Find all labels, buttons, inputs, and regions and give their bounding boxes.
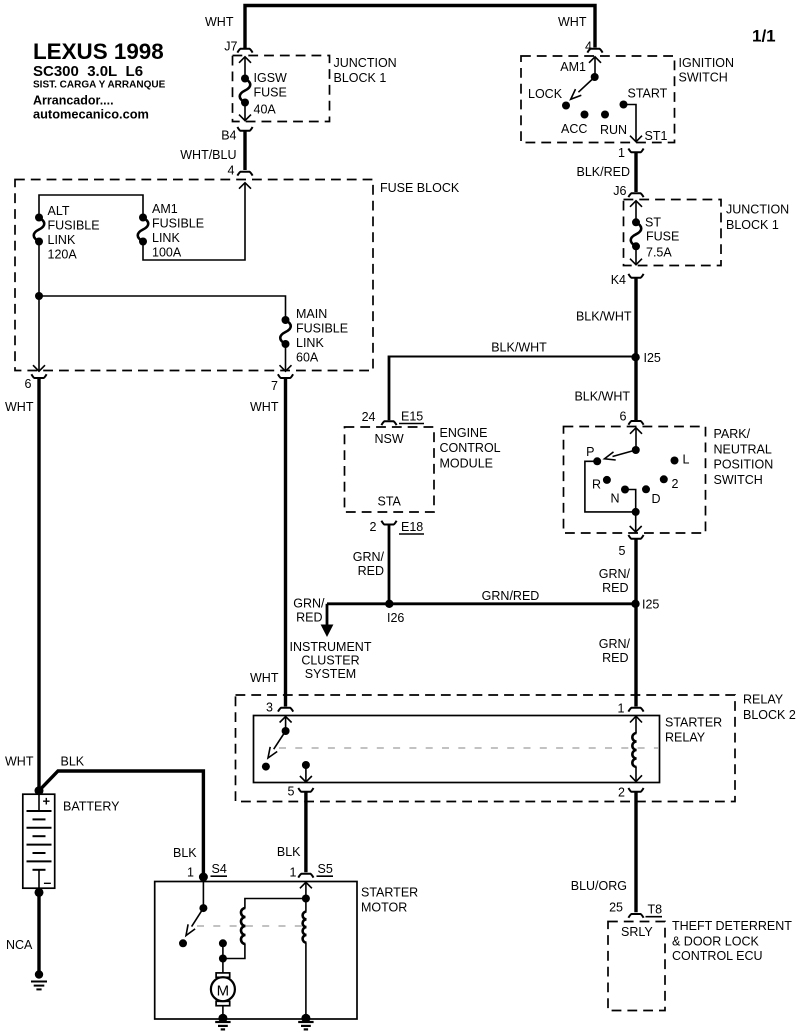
wire ALT link down to junction	[38, 242, 40, 297]
svg-text:I25: I25	[644, 351, 661, 365]
contact D	[642, 485, 650, 493]
mechanical link (grey dashed)	[197, 925, 306, 927]
switch arm AM1 to LOCK	[578, 77, 594, 92]
svg-text:FUSE: FUSE	[254, 86, 287, 100]
wire GRN/RED (PNP 5 to I25)	[634, 539, 637, 604]
svg-text:2: 2	[370, 520, 377, 534]
svg-text:ST1: ST1	[645, 129, 668, 143]
svg-text:5: 5	[619, 544, 626, 558]
svg-text:FUSIBLE: FUSIBLE	[48, 219, 100, 233]
svg-text:JUNCTION: JUNCTION	[726, 203, 789, 217]
relay switch	[262, 717, 292, 771]
wire NCA (battery to ground)	[37, 892, 40, 973]
wire BLK/WHT (K4 to I25)	[634, 278, 637, 357]
svg-text:Arrancador....: Arrancador....	[33, 94, 114, 108]
svg-text:AM1: AM1	[152, 202, 178, 216]
hold-in coil	[305, 899, 307, 912]
svg-text:BLOCK 1: BLOCK 1	[726, 218, 779, 232]
ground (battery)	[31, 970, 47, 989]
S5 lead with arrow	[300, 882, 312, 888]
svg-text:RELAY: RELAY	[743, 693, 784, 707]
wire P to output junction	[585, 461, 636, 512]
svg-text:WHT: WHT	[5, 755, 34, 769]
svg-text:FUSE: FUSE	[646, 230, 679, 244]
pull-in coil	[245, 899, 306, 909]
svg-text:& DOOR LOCK: & DOOR LOCK	[672, 935, 759, 949]
wire WHT top bus (J7 to ignition switch pin 4)	[245, 6, 595, 49]
svg-text:SC300 3.0L L6: SC300 3.0L L6	[33, 63, 143, 80]
svg-text:POSITION: POSITION	[714, 458, 774, 472]
svg-text:ALT: ALT	[48, 204, 70, 218]
contact ACC	[581, 111, 589, 119]
svg-text:6: 6	[620, 410, 627, 424]
svg-text:SYSTEM: SYSTEM	[305, 667, 356, 681]
contact P	[593, 457, 601, 465]
mechanical link (grey dashed)	[279, 747, 658, 749]
svg-text:2: 2	[618, 786, 625, 800]
svg-text:RED: RED	[602, 581, 628, 595]
svg-text:RELAY: RELAY	[665, 731, 706, 745]
wire junction to MAIN link	[39, 296, 286, 320]
node I25 (upper)	[631, 353, 639, 361]
wire GRN/RED horizontal (I26 to I25)	[327, 602, 636, 605]
relay block 2 box	[236, 695, 736, 802]
svg-text:LOCK: LOCK	[528, 87, 563, 101]
svg-text:J7: J7	[224, 40, 237, 54]
svg-text:BLK/RED: BLK/RED	[577, 165, 631, 179]
ground (solenoid)	[298, 1022, 313, 1029]
svg-text:BLK: BLK	[173, 846, 197, 860]
wire BLK/WHT (I25 to PNP pin 6)	[634, 357, 637, 420]
wire BLK/RED (ST1 to J6)	[634, 153, 637, 193]
wire junction down to pin 6	[38, 296, 40, 371]
svg-text:100A: 100A	[152, 246, 182, 260]
svg-text:1: 1	[618, 146, 625, 160]
solenoid switch	[202, 877, 204, 908]
ignition switch box	[521, 56, 675, 143]
svg-text:GRN/RED: GRN/RED	[482, 589, 540, 603]
svg-text:60A: 60A	[296, 351, 319, 365]
svg-text:25: 25	[609, 901, 623, 915]
svg-text:6: 6	[25, 377, 32, 391]
svg-text:N: N	[611, 492, 620, 506]
svg-text:5: 5	[288, 785, 295, 799]
fuse block box	[15, 180, 373, 371]
svg-text:MOTOR: MOTOR	[361, 901, 407, 915]
svg-text:MAIN: MAIN	[296, 307, 327, 321]
svg-text:+: +	[43, 794, 51, 809]
svg-text:M: M	[217, 983, 230, 1000]
svg-text:START: START	[628, 87, 668, 101]
svg-text:WHT: WHT	[5, 400, 34, 414]
contact N	[621, 486, 629, 494]
svg-text:IGNITION: IGNITION	[679, 56, 735, 70]
svg-text:WHT: WHT	[250, 671, 279, 685]
svg-text:RUN: RUN	[600, 123, 627, 137]
svg-text:automecanico.com: automecanico.com	[33, 107, 149, 122]
svg-text:WHT: WHT	[250, 400, 279, 414]
svg-text:LINK: LINK	[152, 231, 180, 245]
svg-text:K4: K4	[611, 273, 626, 287]
svg-text:S5: S5	[318, 862, 333, 876]
contact R	[603, 476, 611, 484]
svg-text:BLOCK 1: BLOCK 1	[334, 71, 387, 85]
starter motor box	[155, 882, 357, 1020]
svg-text:J6: J6	[613, 184, 626, 198]
svg-text:BATTERY: BATTERY	[63, 800, 120, 814]
svg-text:SIST. CARGA Y ARRANQUE: SIST. CARGA Y ARRANQUE	[33, 80, 166, 91]
svg-text:LINK: LINK	[48, 233, 76, 247]
svg-text:4: 4	[228, 164, 235, 178]
fusible link ALT 120A	[34, 204, 100, 262]
svg-text:NEUTRAL: NEUTRAL	[714, 443, 772, 457]
svg-text:SWITCH: SWITCH	[679, 71, 728, 85]
wire WHT/BLU (B4 to fuse block pin 4)	[243, 131, 246, 170]
svg-text:ENGINE: ENGINE	[440, 426, 488, 440]
svg-text:FUSIBLE: FUSIBLE	[296, 322, 348, 336]
svg-text:–: –	[44, 874, 52, 890]
wire GRN/RED (I25 to relay pin 1)	[634, 604, 637, 707]
fusible link AM1 100A	[138, 202, 204, 260]
fuse ST 7.5A	[630, 201, 679, 265]
PNP internals	[585, 428, 690, 532]
svg-text:JUNCTION: JUNCTION	[334, 56, 397, 70]
svg-text:E15: E15	[401, 410, 423, 424]
svg-text:CONTROL: CONTROL	[440, 441, 501, 455]
svg-text:IGSW: IGSW	[254, 71, 288, 85]
svg-text:BLK/WHT: BLK/WHT	[574, 390, 630, 404]
svg-text:2: 2	[672, 477, 679, 491]
contact RUN	[601, 111, 609, 119]
svg-text:1: 1	[187, 866, 194, 880]
svg-text:ACC: ACC	[561, 122, 587, 136]
svg-text:MODULE: MODULE	[440, 457, 493, 471]
svg-text:7: 7	[271, 379, 278, 393]
svg-text:LEXUS 1998: LEXUS 1998	[33, 39, 164, 64]
svg-text:RED: RED	[602, 651, 628, 665]
ground (motor)	[215, 1022, 230, 1029]
svg-text:L: L	[683, 453, 690, 467]
junction block 1 (right, ST fuse) box	[624, 200, 722, 266]
ignition switch internals	[528, 57, 668, 143]
svg-text:E18: E18	[401, 520, 423, 534]
theft deterrent ECU box	[608, 922, 665, 1011]
node I25 (lower)	[631, 600, 639, 608]
contact START	[620, 101, 628, 109]
wire AM1 link to pin 4 arrow	[143, 183, 245, 260]
svg-text:CONTROL ECU: CONTROL ECU	[672, 949, 763, 963]
engine control module box	[345, 427, 435, 512]
wire GRN/RED (STA to I26)	[388, 525, 391, 604]
svg-text:WHT/BLU: WHT/BLU	[180, 148, 236, 162]
svg-text:40A: 40A	[254, 103, 277, 117]
motor M	[222, 959, 224, 973]
starter relay box	[254, 716, 660, 783]
svg-text:3: 3	[266, 701, 273, 715]
svg-text:STARTER: STARTER	[665, 716, 722, 730]
relay coil	[630, 716, 642, 781]
svg-text:AM1: AM1	[560, 60, 586, 74]
svg-text:FUSIBLE: FUSIBLE	[152, 217, 204, 231]
svg-text:1: 1	[618, 702, 625, 716]
svg-text:1: 1	[290, 866, 297, 880]
svg-text:GRN/: GRN/	[599, 567, 631, 581]
svg-text:24: 24	[362, 410, 376, 424]
wire BLK (relay 5 to S5)	[304, 792, 307, 872]
svg-text:STARTER: STARTER	[361, 886, 418, 900]
svg-text:B4: B4	[221, 129, 236, 143]
svg-text:BLK/WHT: BLK/WHT	[576, 310, 632, 324]
fusible link MAIN 60A	[280, 307, 349, 371]
svg-text:I25: I25	[642, 598, 659, 612]
svg-text:ST: ST	[645, 216, 661, 230]
wire BLK (battery to S4)	[39, 771, 203, 877]
svg-text:R: R	[592, 478, 601, 492]
wire WHT (pin 6 down to battery)	[37, 378, 40, 791]
battery	[23, 786, 120, 897]
park/neutral position switch box	[564, 427, 706, 534]
svg-text:GRN/: GRN/	[599, 637, 631, 651]
svg-text:BLK/WHT: BLK/WHT	[491, 341, 547, 355]
contact node pair	[219, 939, 227, 947]
svg-text:1/1: 1/1	[752, 27, 776, 46]
svg-text:THEFT DETERRENT: THEFT DETERRENT	[672, 919, 792, 933]
svg-text:BLU/ORG: BLU/ORG	[571, 879, 627, 893]
wire GRN/RED to instrument cluster (arrow)	[326, 604, 329, 625]
svg-text:STA: STA	[378, 495, 402, 509]
switch arm to P	[613, 450, 636, 457]
junction block 1 (top, IGSW fuse) box	[233, 56, 330, 122]
svg-text:BLOCK 2: BLOCK 2	[743, 708, 796, 722]
svg-text:SWITCH: SWITCH	[714, 473, 763, 487]
relay switch output pin 5	[300, 761, 312, 782]
svg-text:NCA: NCA	[6, 938, 33, 952]
svg-text:SRLY: SRLY	[621, 925, 653, 939]
fuse IGSW 40A	[239, 57, 287, 121]
svg-text:S4: S4	[212, 862, 227, 876]
svg-text:PARK/: PARK/	[714, 427, 751, 441]
node I26	[385, 600, 393, 608]
svg-text:RED: RED	[296, 611, 322, 625]
svg-text:WHT: WHT	[558, 15, 587, 29]
svg-text:FUSE BLOCK: FUSE BLOCK	[380, 181, 460, 195]
svg-text:T8: T8	[648, 903, 663, 917]
wire START to ST1	[624, 105, 637, 142]
wire BLU/ORG (relay 2 to T8)	[634, 792, 637, 912]
svg-text:I26: I26	[387, 611, 404, 625]
svg-text:GRN/: GRN/	[293, 597, 325, 611]
contact L	[671, 457, 679, 465]
starter motor internals	[179, 877, 312, 1023]
svg-text:D: D	[652, 492, 661, 506]
svg-text:7.5A: 7.5A	[646, 246, 672, 260]
wire WHT (pin 7 down to relay pin 3)	[284, 378, 287, 706]
wire BLK/WHT branch to ECM	[389, 356, 636, 358]
contact 2	[660, 475, 668, 483]
svg-text:NSW: NSW	[375, 432, 404, 446]
svg-text:RED: RED	[358, 564, 384, 578]
svg-text:BLK: BLK	[61, 755, 85, 769]
svg-text:LINK: LINK	[296, 336, 324, 350]
junction node in fuse block	[35, 292, 43, 300]
svg-text:120A: 120A	[48, 248, 78, 262]
svg-text:P: P	[586, 445, 594, 459]
output junction node	[632, 508, 640, 516]
svg-text:BLK: BLK	[277, 845, 301, 859]
svg-text:CLUSTER: CLUSTER	[301, 654, 359, 668]
svg-text:INSTRUMENT: INSTRUMENT	[290, 640, 372, 654]
svg-text:WHT: WHT	[205, 15, 234, 29]
svg-text:GRN/: GRN/	[353, 550, 385, 564]
wire fuse block top bar	[39, 195, 143, 217]
